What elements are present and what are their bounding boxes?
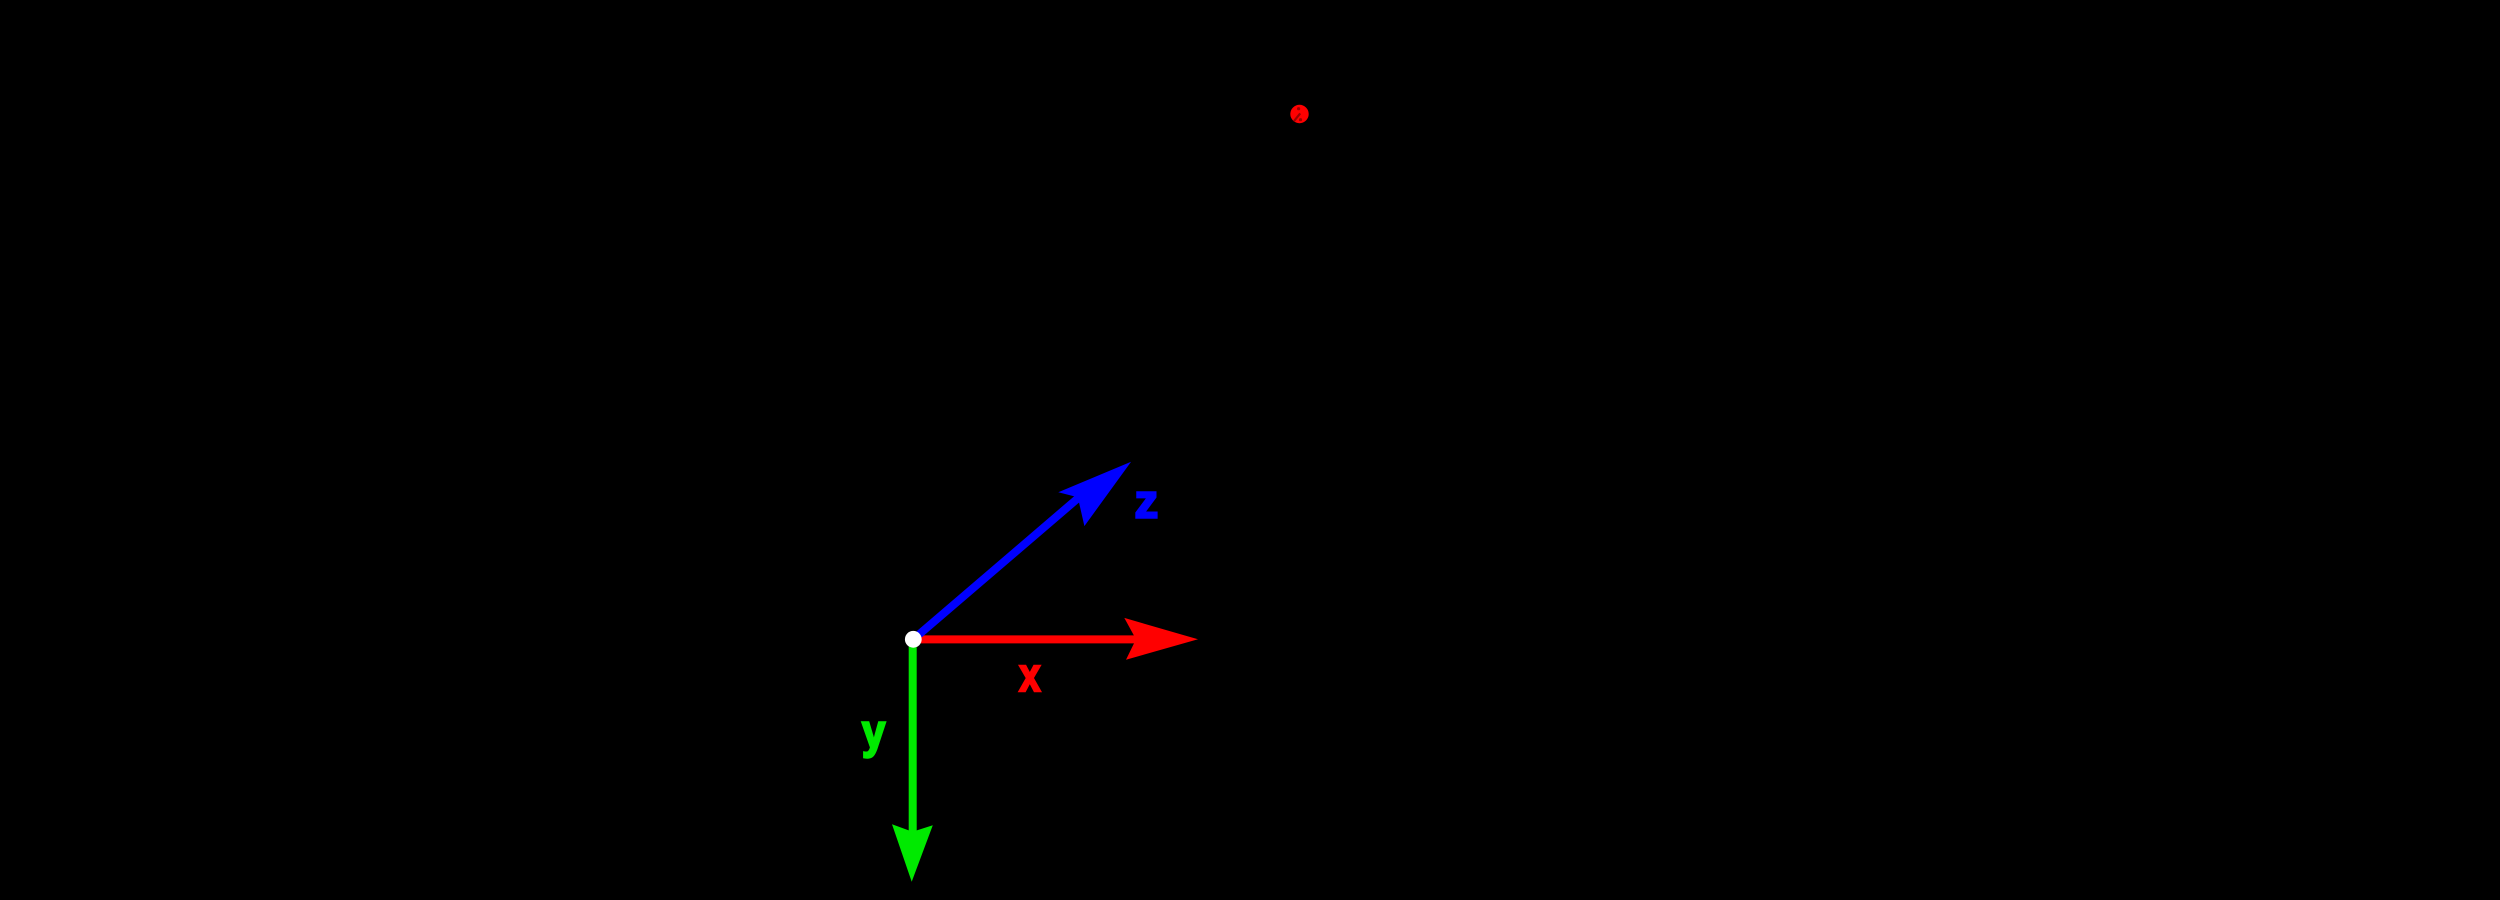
svg-text:z: z <box>1135 475 1159 528</box>
origin node (white dot) <box>905 631 922 648</box>
z axis arrow (blue) <box>919 462 1131 635</box>
svg-text:y: y <box>862 704 885 757</box>
x axis arrow (red) <box>921 618 1198 660</box>
svg-text:x: x <box>1019 648 1040 701</box>
y axis arrow (green) <box>892 646 933 882</box>
red ball marker <box>1290 105 1308 123</box>
